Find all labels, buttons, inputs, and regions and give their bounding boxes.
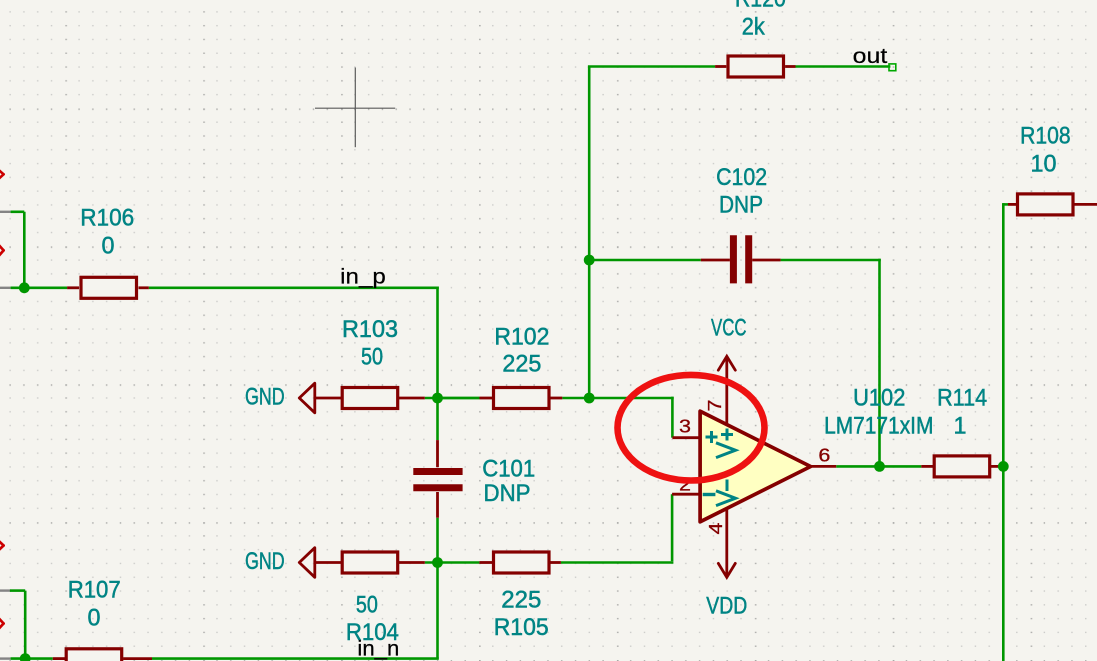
pin R114 left pin <box>921 465 933 468</box>
pin opamp pin 3 line <box>672 436 700 439</box>
svg-text:R102: R102 <box>494 323 549 350</box>
gray pin stub y=211.8 <box>0 211 11 213</box>
pin R108 right pin <box>1074 203 1097 206</box>
pin R104 right pin <box>399 561 425 564</box>
svg-text:2k: 2k <box>742 14 766 41</box>
wire R120 right to out label <box>796 65 891 68</box>
svg-text:R105: R105 <box>494 614 549 641</box>
pin R120 right pin <box>785 65 795 68</box>
DNP X mark (partial, off-canvas symbol) top <box>0 170 4 178</box>
wire R102 right to junction <box>562 397 590 400</box>
wire output row to R114 <box>836 465 921 468</box>
op-amp pin 4 VDD line <box>725 509 728 578</box>
wire R114 right to junction <box>1002 465 1005 468</box>
pin GND1/R103 left pin <box>315 397 341 400</box>
pin C101 top pin <box>436 440 439 467</box>
global label GND lower arrow <box>299 548 315 578</box>
svg-text:6: 6 <box>818 444 830 465</box>
svg-text:0: 0 <box>88 604 101 631</box>
pin R107 left pin <box>53 657 65 660</box>
op-amp U102 triangle body <box>700 411 811 522</box>
pin 2 name minus mark <box>703 493 716 496</box>
pin R102 left pin <box>479 397 492 400</box>
wire R103-R102 net across junction <box>425 397 480 400</box>
capacitor C101 plates <box>413 472 462 488</box>
svg-text:VCC: VCC <box>711 315 747 342</box>
DNP X mark upper <box>0 245 4 255</box>
svg-text:0: 0 <box>102 232 115 259</box>
pin C101 bottom pin <box>436 492 439 518</box>
wire R104-R105 net across junction <box>425 561 480 564</box>
pin R106 right pin <box>139 286 149 289</box>
junction (879.5,466.4) <box>874 461 885 472</box>
pin R106 left pin <box>67 286 79 289</box>
pin R108 left pin <box>1008 203 1017 206</box>
wire R106 left <box>11 286 68 289</box>
pin R102 right pin <box>550 397 562 400</box>
pin C102 left pin <box>701 259 730 262</box>
svg-text:in_n: in_n <box>357 638 399 661</box>
wire left lower stub to corner <box>10 589 25 592</box>
wire left lower vertical <box>24 591 27 659</box>
gray pin stub y=590.6 <box>0 589 11 591</box>
svg-text:7: 7 <box>704 400 725 412</box>
svg-text:1: 1 <box>954 413 967 440</box>
svg-text:R114: R114 <box>937 385 987 412</box>
junction (25.2,658.6) <box>20 653 31 661</box>
pin opamp pin 2 line <box>672 493 700 496</box>
wire left vertical into R106 net <box>23 212 26 288</box>
wire R120 left wire <box>588 65 715 68</box>
svg-text:in_p: in_p <box>340 265 386 288</box>
pin R105 left pin <box>479 561 492 564</box>
gray pin stub y=287.8 <box>0 287 11 289</box>
wire junction to pin3 elbow <box>591 397 674 400</box>
svg-text:R107: R107 <box>68 577 121 604</box>
op-amp pin 7 VCC line <box>725 356 728 424</box>
gray pin stub y=658.6 <box>0 657 11 659</box>
VDD arrow head <box>718 563 735 577</box>
global label GND upper arrow <box>299 383 315 413</box>
pin R103 right pin <box>399 397 425 400</box>
wire in_p horizontal <box>149 286 439 289</box>
svg-text:2: 2 <box>679 474 691 495</box>
resistor R103 body <box>342 388 398 409</box>
svg-text:3: 3 <box>679 415 691 436</box>
svg-text:R120: R120 <box>735 0 786 13</box>
svg-text:C102: C102 <box>716 164 767 191</box>
resistor R120 body <box>728 56 784 77</box>
wire in_n vertical <box>436 561 439 658</box>
svg-text:out: out <box>853 45 888 68</box>
resistor R105 body <box>494 552 550 573</box>
svg-text:50: 50 <box>356 592 378 619</box>
svg-text:VDD: VDD <box>706 593 747 620</box>
svg-text:LM7171xIM: LM7171xIM <box>824 413 933 440</box>
wire elbow down to pin3 <box>671 397 674 438</box>
wire right vertical x=1003 <box>1002 203 1005 661</box>
svg-text:4: 4 <box>705 523 726 535</box>
pin 7 name V+ rotated: V chevron <box>716 443 736 458</box>
out label anchor square <box>889 64 896 71</box>
wire in_n horizontal <box>152 657 439 660</box>
wire C102 left wire <box>589 259 701 262</box>
junction (437.5,398) <box>432 393 443 404</box>
resistor R114 body <box>934 456 990 477</box>
svg-text:U102: U102 <box>853 385 905 412</box>
svg-text:GND: GND <box>245 384 285 411</box>
wire dup <box>439 397 480 400</box>
wire R105 right to elbow <box>561 561 674 564</box>
pin GND2/R104 left pin <box>315 561 341 564</box>
DNP X mark lower-mid <box>0 541 4 550</box>
svg-text:R103: R103 <box>342 316 398 343</box>
svg-text:DNP: DNP <box>719 191 763 218</box>
pin 4 name V- rotated: minus bar <box>726 480 729 492</box>
junction (1003.3,466.4) <box>998 461 1009 472</box>
pin R107 right pin <box>123 657 152 660</box>
DNP X mark bottom <box>0 619 4 629</box>
pin C102 right pin <box>752 259 780 262</box>
wire feedback drop x=879 <box>878 259 881 467</box>
wire C101 bottom wire <box>436 518 439 563</box>
wire bottom row left <box>11 657 53 660</box>
resistor R108 body <box>1018 194 1074 215</box>
pin 7 name V+ rotated: plus <box>721 429 733 441</box>
junction (589.2,398) <box>584 393 595 404</box>
wire C102 right wire <box>781 259 881 262</box>
wire R108 corner stub <box>1003 203 1008 206</box>
pin 3 name plus mark <box>706 431 718 443</box>
pin opamp pin 6 line <box>811 465 837 468</box>
svg-text:R106: R106 <box>80 205 134 232</box>
resistor R104 body <box>342 552 398 573</box>
resistor R102 body <box>494 388 550 409</box>
resistor R106 body <box>81 277 137 298</box>
VCC arrow head <box>718 356 735 370</box>
annotation ellipse (red highlight) <box>618 375 765 481</box>
wire elbow up to pin2 <box>671 494 674 561</box>
wire feedback vertical x=589 <box>588 67 591 400</box>
svg-text:C101: C101 <box>482 456 535 483</box>
junction (437.5,562.5) <box>432 557 443 568</box>
pin R120 left pin <box>715 65 726 68</box>
svg-text:R108: R108 <box>1020 123 1071 150</box>
svg-text:GND: GND <box>245 548 285 575</box>
wire C101 top wire <box>436 397 439 440</box>
svg-text:10: 10 <box>1031 150 1057 177</box>
svg-text:50: 50 <box>361 343 383 370</box>
junction (24.3,287.8) <box>19 282 30 293</box>
wire left upper stub to corner <box>11 211 25 214</box>
junction (589.2,260) <box>584 255 595 266</box>
pin R105 right pin <box>550 561 561 564</box>
svg-text:225: 225 <box>502 351 541 378</box>
svg-text:DNP: DNP <box>484 480 531 507</box>
capacitor C102 plates <box>733 235 748 283</box>
crosshair cursor <box>315 68 395 148</box>
pin R114 right pin <box>991 465 1004 468</box>
svg-text:225: 225 <box>501 587 541 614</box>
wire in_p drop to R103 net <box>436 287 439 399</box>
pin 4 name V- rotated: V chevron <box>716 491 736 506</box>
resistor R107 body <box>66 649 122 661</box>
